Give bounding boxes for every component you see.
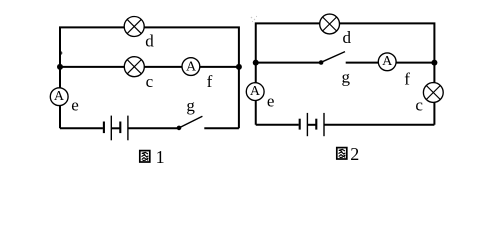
svg-text:f: f (207, 72, 213, 91)
svg-text:e: e (267, 92, 275, 111)
svg-text:e: e (71, 96, 79, 115)
svg-text:g: g (186, 96, 195, 115)
svg-text:A: A (382, 54, 393, 69)
svg-text:c: c (415, 96, 423, 115)
svg-text:d: d (343, 28, 352, 47)
svg-text:f: f (404, 70, 410, 89)
svg-text:A: A (54, 89, 65, 104)
svg-text:1: 1 (156, 147, 165, 165)
svg-text:c: c (146, 72, 154, 91)
svg-text:g: g (342, 68, 351, 87)
svg-text:d: d (145, 31, 154, 50)
svg-text:A: A (250, 84, 261, 99)
svg-text:2: 2 (350, 144, 359, 164)
svg-text:A: A (186, 59, 197, 74)
